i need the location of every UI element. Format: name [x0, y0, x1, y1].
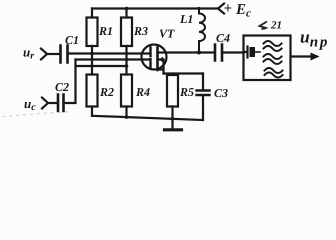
wire source node horizontal — [164, 72, 204, 74]
capacitor C4 — [215, 45, 222, 61]
resistor R4 — [121, 75, 132, 107]
transistor VT gate bar upper — [149, 48, 151, 57]
node R5 - rail — [171, 117, 175, 121]
node R5 top on source wire — [171, 72, 174, 75]
wire uc to C2 — [48, 102, 57, 104]
filter wave symbols — [264, 41, 283, 78]
svg-text:R4: R4 — [135, 85, 150, 99]
wire C2 riser — [64, 60, 76, 104]
output arrowhead — [311, 53, 320, 61]
capacitor C3 — [202, 74, 204, 121]
wire R1-R2 vertical — [91, 46, 93, 75]
svg-text:+: + — [224, 1, 233, 17]
wire R2 bottom lead — [91, 107, 93, 116]
transistor VT substrate arrow — [159, 57, 164, 62]
annotation above filter — [260, 20, 283, 32]
terminal +Ec — [218, 4, 224, 14]
wire R3-R4 vertical — [125, 46, 127, 75]
node L1-drain junction — [197, 51, 201, 55]
wire R4 bottom lead — [125, 107, 127, 118]
node R3-rail junction — [125, 7, 129, 11]
wire bottom ground rail — [92, 116, 203, 120]
svg-text:C2: C2 — [55, 80, 69, 94]
scan artifact faint line — [2, 112, 72, 117]
terminal input ug — [41, 49, 47, 60]
wire R1 top lead — [91, 9, 93, 18]
svg-text:VT: VT — [159, 27, 175, 41]
svg-text:21: 21 — [270, 20, 282, 32]
resistor R5 — [167, 75, 178, 107]
transistor VT gate bar lower — [149, 59, 151, 68]
svg-text:R1: R1 — [98, 24, 113, 38]
svg-text:R2: R2 — [99, 85, 114, 99]
wire output — [291, 55, 317, 57]
wire drain stub and drain line — [158, 51, 215, 53]
svg-text:C4: C4 — [216, 31, 230, 45]
wire C4 to filter — [222, 51, 244, 53]
resistor R1 — [87, 18, 98, 47]
wire ug to C1 — [47, 53, 60, 55]
capacitor C2 — [58, 95, 64, 112]
transistor VT body circle — [142, 45, 167, 70]
ground — [171, 119, 173, 129]
wire source vertical — [162, 60, 164, 74]
node R4 - rail — [125, 115, 129, 119]
resistor R2 — [87, 75, 98, 107]
piezo element inside filter — [244, 47, 261, 58]
resistor R3 — [121, 18, 132, 47]
svg-text:C1: C1 — [65, 33, 79, 47]
wire gate1: riser to lower gate — [76, 58, 151, 60]
transistor VT source stub — [158, 68, 164, 70]
transistor VT channel bar — [156, 48, 159, 71]
node tap - R3R4 junction — [125, 64, 129, 68]
terminal input uc — [42, 98, 48, 109]
node C1 wire - R1R2 junction — [90, 52, 94, 56]
svg-text:R3: R3 — [133, 24, 148, 38]
node gate1 wire - R3R4 junction — [125, 58, 129, 62]
wire gate1 tap to R3R4 node — [76, 65, 127, 67]
svg-text:R5: R5 — [179, 85, 194, 99]
wire gate2: C1 to upper gate — [68, 52, 151, 54]
wire top supply rail — [92, 7, 218, 9]
wire R3 top lead — [125, 9, 127, 18]
wire R5 bottom lead — [171, 107, 173, 119]
svg-text:L1: L1 — [179, 12, 193, 26]
svg-text:C3: C3 — [214, 86, 228, 100]
inductor L1 — [198, 9, 200, 53]
node crossing blobs — [91, 58, 94, 61]
filter block Z — [244, 36, 291, 81]
node L1-rail junction — [197, 7, 200, 10]
transistor VT substrate stub — [158, 58, 164, 60]
capacitor C1 — [61, 46, 68, 63]
